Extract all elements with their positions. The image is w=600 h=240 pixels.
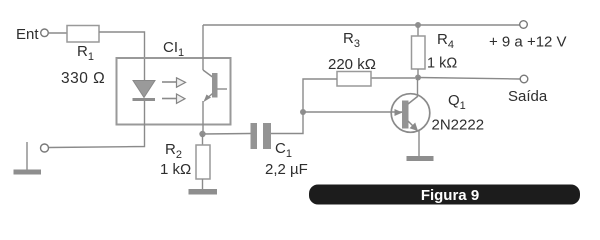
node input terminal Ent bbox=[41, 29, 49, 37]
svg-text:330 Ω: 330 Ω bbox=[61, 70, 105, 87]
wire R3 right lead bbox=[371, 77, 415, 79]
capacitor C1 bbox=[251, 123, 272, 149]
transistor phototransistor inside CI1 bbox=[203, 70, 227, 102]
wire R1 right lead to LED anode bbox=[99, 32, 145, 81]
ground left bbox=[14, 142, 42, 175]
resistor R1 bbox=[67, 26, 99, 43]
diode LED inside CI1 bbox=[133, 81, 156, 102]
wire top supply rail bbox=[203, 24, 520, 26]
svg-text:+ 9 a +12 V: + 9 a +12 V bbox=[489, 34, 567, 51]
svg-text:1 kΩ: 1 kΩ bbox=[427, 56, 457, 72]
wire phototransistor emitter down to junction bbox=[202, 101, 204, 131]
svg-text:Figura 9: Figura 9 bbox=[421, 187, 479, 204]
node +V supply terminal bbox=[520, 21, 528, 29]
svg-text:2N2222: 2N2222 bbox=[432, 117, 485, 134]
resistor R4 bbox=[412, 36, 426, 69]
node junction top rail / R4 bbox=[415, 22, 421, 28]
node junction emitter / R2 / C1 bbox=[199, 131, 205, 137]
wire R3 left lead down to base node bbox=[303, 79, 337, 112]
light arrow lower inside CI1 bbox=[162, 94, 185, 103]
wire R4 bottom pin bbox=[417, 69, 419, 78]
wire R2 bottom pin bbox=[202, 179, 204, 189]
wire emitter node to C1 left plate bbox=[203, 133, 251, 136]
op-amp CI1 optocoupler package box bbox=[117, 58, 231, 125]
transistor Q1 bbox=[391, 94, 430, 133]
wire R2 top pin bbox=[202, 134, 204, 145]
wire Q1 collector up to output junction bbox=[417, 78, 419, 98]
svg-text:220 kΩ: 220 kΩ bbox=[328, 56, 376, 73]
ground under R2 bbox=[189, 189, 218, 195]
wire R4 top pin bbox=[417, 25, 419, 36]
node output terminal bbox=[520, 75, 528, 83]
ground under Q1 bbox=[407, 156, 434, 161]
node input return terminal bbox=[41, 144, 49, 152]
wire base node to Q1 base bbox=[303, 111, 402, 113]
resistor R2 bbox=[196, 145, 210, 179]
Figura 9 caption bar bbox=[309, 185, 580, 205]
wire LED cathode down and left to return terminal bbox=[49, 101, 145, 148]
wire base node down to C1 right plate bbox=[271, 112, 303, 134]
svg-text:Saída: Saída bbox=[508, 88, 548, 105]
wire to output terminal bbox=[418, 78, 520, 80]
node junction R4 / collector / output bbox=[415, 75, 421, 81]
svg-text:1 kΩ: 1 kΩ bbox=[160, 161, 191, 178]
wire Q1 emitter down to ground bbox=[418, 130, 420, 156]
wire Ent terminal to R1 bbox=[49, 32, 68, 34]
svg-text:Ent: Ent bbox=[16, 26, 39, 43]
node junction R3 / C1 / base bbox=[300, 109, 306, 115]
resistor R3 bbox=[337, 72, 371, 87]
wire phototransistor collector to top rail bbox=[202, 25, 204, 70]
light arrow upper inside CI1 bbox=[162, 78, 186, 87]
svg-text:2,2 µF: 2,2 µF bbox=[265, 161, 308, 178]
